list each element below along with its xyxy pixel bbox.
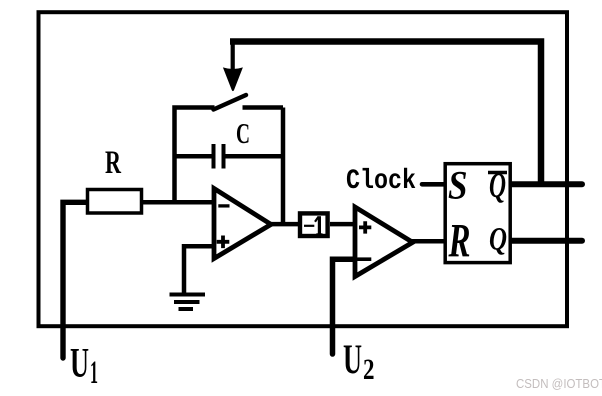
wire Q-bar output [512,181,583,187]
wire U2 input to comparator inverting input [333,259,356,354]
svg-text:U: U [70,341,89,387]
feedback arrowhead [223,67,243,91]
node U2 label [343,338,375,387]
switch S1 blade [214,95,247,110]
svg-text:R: R [448,215,471,268]
svg-text:S: S [448,162,468,207]
inverter block -1 [300,213,328,236]
svg-text:U: U [343,338,362,384]
ground [170,295,206,310]
watermark [516,377,602,391]
svg-text:C: C [236,118,250,150]
wire feedback left leg [175,108,215,203]
wire resistor to op-amp inverting input [142,200,215,205]
wire feedback from Q-bar to switch [230,42,541,185]
wire comparator output to flip-flop R input [412,239,446,244]
svg-text:2: 2 [363,353,375,386]
comparator U2 [355,207,413,277]
comparator U2 inverting input marker [357,257,371,261]
wire op-amp output to inverter [270,222,299,227]
node U1 label [70,341,98,391]
capacitor C1 left wire [175,154,213,159]
svg-text:1: 1 [90,355,98,391]
wire U1 input [63,202,88,358]
flip-flop pin label R [448,215,471,268]
wire non-inverting input to ground [184,246,214,294]
comparator U2 non-inverting input marker [359,221,371,233]
node Clock label [346,166,416,197]
wire inverter to comparator non-inverting input [330,222,355,227]
flip-flop pin label Q [489,222,507,258]
resistor R1 [88,190,142,214]
svg-text:Q: Q [489,222,507,258]
capacitor C1 plates [214,144,224,169]
op-amp U1 integrator [214,189,271,259]
wire Q output [512,238,583,244]
svg-text:CSDN @IOTBOT: CSDN @IOTBOT [516,377,602,391]
capacitor C1 value label C [236,118,250,150]
flip-flop pin label Q-bar [488,165,507,205]
svg-text:R: R [105,145,122,181]
op-amp U1 non-inverting input marker [217,236,230,249]
capacitor C1 right wire [226,154,284,159]
op-amp U1 inverting input marker [218,204,229,207]
flip-flop pin label S [448,162,468,207]
wire Clock to flip-flop S input [422,182,445,187]
flip-flop U3 SR latch [445,164,510,263]
resistor R1 value label R [105,145,122,181]
svg-text:Clock: Clock [346,166,416,197]
wire feedback right leg [281,108,286,225]
switch S1 right contact wire [243,105,284,110]
